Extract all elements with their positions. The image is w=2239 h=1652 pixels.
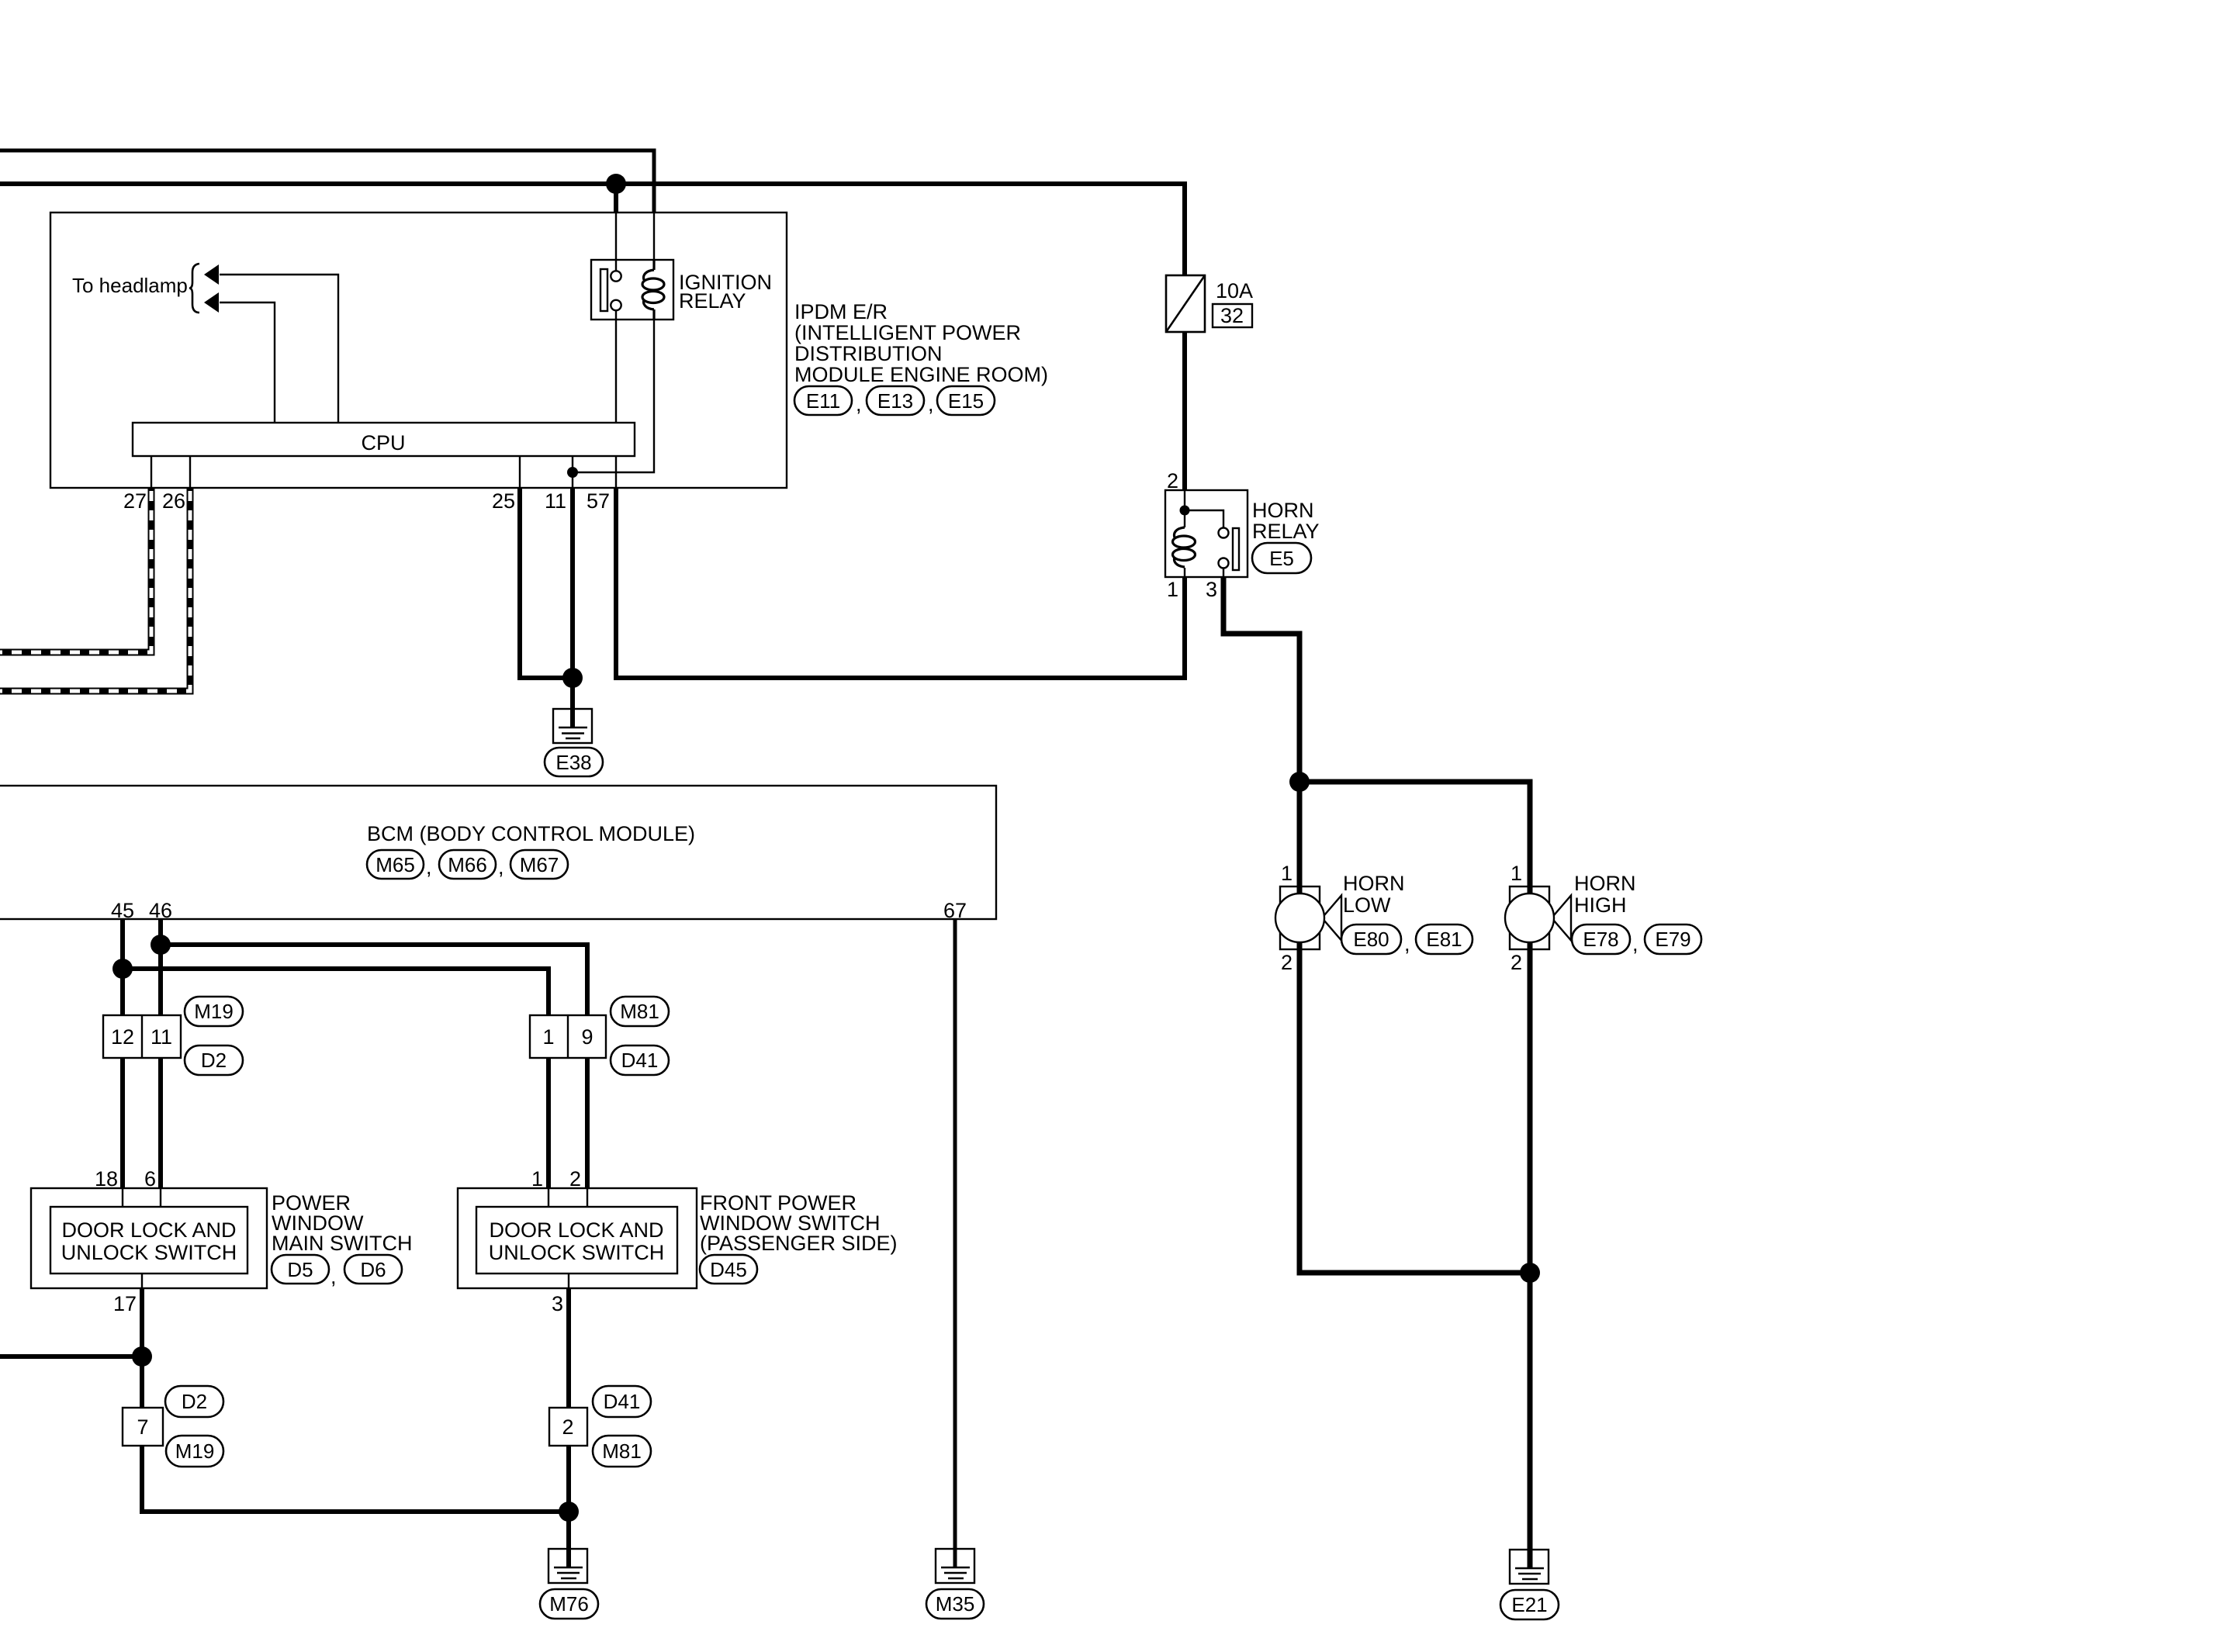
svg-text:32: 32 (1220, 304, 1244, 327)
svg-text:M81: M81 (602, 1439, 642, 1463)
svg-text:1: 1 (1511, 862, 1522, 885)
svg-text:DISTRIBUTION: DISTRIBUTION (794, 342, 943, 365)
svg-text:To headlamp: To headlamp (72, 274, 188, 297)
svg-text:67: 67 (943, 899, 967, 922)
svg-text:1: 1 (542, 1025, 554, 1049)
svg-text:26: 26 (162, 489, 185, 513)
svg-text:6: 6 (144, 1167, 156, 1191)
svg-text:3: 3 (1206, 578, 1217, 601)
svg-text:,: , (1632, 932, 1639, 956)
svg-text:HORN: HORN (1252, 499, 1314, 522)
svg-text:18: 18 (95, 1167, 118, 1191)
svg-text:E78: E78 (1583, 928, 1618, 951)
svg-text:M66: M66 (448, 853, 487, 876)
svg-text:,: , (330, 1265, 337, 1288)
svg-text:(PASSENGER SIDE): (PASSENGER SIDE) (700, 1232, 898, 1255)
svg-text:3: 3 (552, 1292, 563, 1315)
svg-text:,: , (856, 392, 862, 416)
svg-text:E21: E21 (1511, 1593, 1547, 1616)
svg-text:12: 12 (111, 1025, 134, 1049)
svg-text:E5: E5 (1269, 547, 1294, 570)
svg-text:27: 27 (123, 489, 147, 513)
svg-text:D41: D41 (621, 1049, 659, 1072)
svg-text:1: 1 (1167, 578, 1178, 601)
svg-text:D45: D45 (710, 1258, 747, 1281)
svg-text:E79: E79 (1655, 928, 1690, 951)
svg-text:M76: M76 (549, 1592, 589, 1616)
svg-text:E80: E80 (1353, 928, 1389, 951)
svg-text:M81: M81 (620, 1000, 659, 1023)
svg-text:2: 2 (569, 1167, 581, 1191)
svg-text:2: 2 (1511, 951, 1522, 974)
svg-text:2: 2 (562, 1415, 573, 1439)
svg-text:10A: 10A (1216, 279, 1253, 302)
svg-text:11: 11 (151, 1025, 172, 1049)
svg-text:RELAY: RELAY (1252, 520, 1320, 543)
svg-text:E13: E13 (877, 389, 913, 413)
svg-text:LOW: LOW (1343, 893, 1391, 917)
svg-text:M67: M67 (520, 853, 559, 876)
svg-text:45: 45 (111, 899, 134, 922)
svg-text:,: , (1404, 932, 1410, 956)
svg-text:RELAY: RELAY (679, 289, 746, 313)
svg-text:7: 7 (137, 1415, 148, 1439)
svg-text:D41: D41 (604, 1390, 641, 1413)
svg-text:9: 9 (581, 1025, 593, 1049)
svg-text:DOOR LOCK AND: DOOR LOCK AND (489, 1218, 663, 1242)
svg-text:D6: D6 (360, 1258, 386, 1281)
svg-text:17: 17 (113, 1292, 137, 1315)
svg-text:M19: M19 (175, 1439, 215, 1463)
svg-text:25: 25 (492, 489, 515, 513)
svg-text:E15: E15 (948, 389, 984, 413)
svg-text:2: 2 (1167, 469, 1178, 492)
svg-text:M65: M65 (375, 853, 415, 876)
svg-text:E38: E38 (555, 751, 591, 774)
svg-text:,: , (928, 392, 934, 416)
svg-text:HORN: HORN (1343, 872, 1405, 895)
svg-text:,: , (426, 855, 432, 879)
svg-text:HORN: HORN (1574, 872, 1636, 895)
svg-text:57: 57 (587, 489, 610, 513)
svg-text:DOOR LOCK AND: DOOR LOCK AND (61, 1218, 236, 1242)
svg-text:M19: M19 (194, 1000, 234, 1023)
svg-text:1: 1 (1281, 862, 1293, 885)
svg-text:D2: D2 (182, 1390, 207, 1413)
svg-text:,: , (498, 855, 504, 879)
svg-text:1: 1 (531, 1167, 543, 1191)
svg-text:CPU: CPU (361, 431, 405, 454)
svg-text:E11: E11 (806, 389, 840, 413)
svg-text:BCM (BODY CONTROL MODULE): BCM (BODY CONTROL MODULE) (367, 822, 695, 845)
svg-text:46: 46 (149, 899, 172, 922)
svg-text:M35: M35 (936, 1592, 975, 1616)
svg-text:2: 2 (1281, 951, 1293, 974)
svg-text:D2: D2 (201, 1049, 227, 1072)
svg-text:D5: D5 (287, 1258, 313, 1281)
svg-text:IPDM E/R: IPDM E/R (794, 300, 888, 323)
svg-text:E81: E81 (1426, 928, 1462, 951)
svg-text:MAIN SWITCH: MAIN SWITCH (272, 1232, 413, 1255)
svg-text:11: 11 (545, 489, 566, 513)
svg-text:(INTELLIGENT POWER: (INTELLIGENT POWER (794, 321, 1021, 344)
svg-text:MODULE ENGINE ROOM): MODULE ENGINE ROOM) (794, 363, 1048, 386)
svg-text:UNLOCK SWITCH: UNLOCK SWITCH (489, 1241, 665, 1264)
svg-text:UNLOCK SWITCH: UNLOCK SWITCH (61, 1241, 237, 1264)
svg-text:HIGH: HIGH (1574, 893, 1627, 917)
